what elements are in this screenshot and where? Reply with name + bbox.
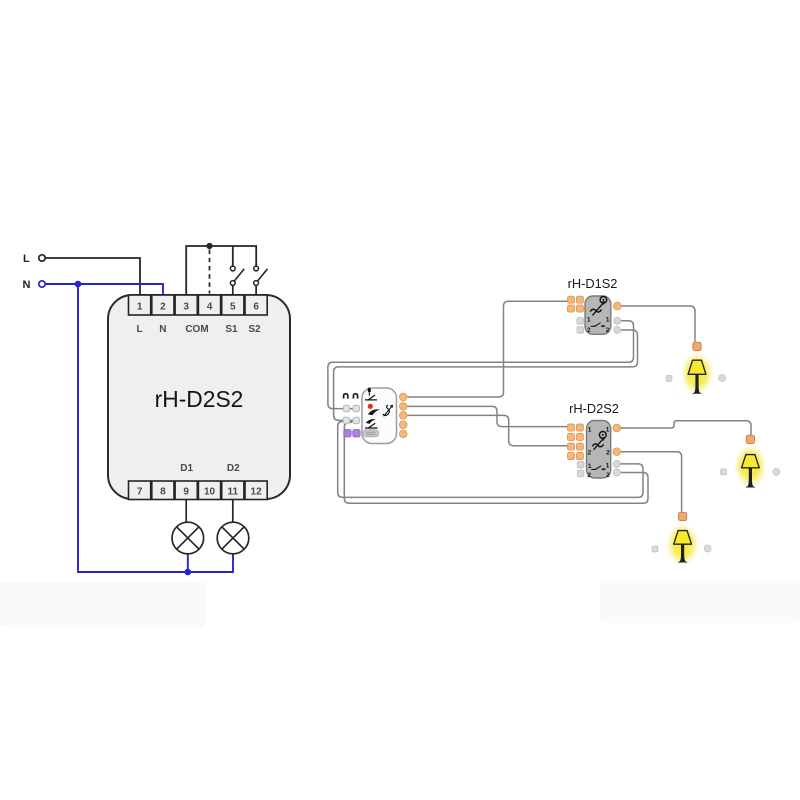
rH-D1S2 S channel labels 2 (587, 327, 610, 334)
rH-D1S2 dimmer symbol (590, 301, 605, 315)
node COM junction (206, 243, 212, 249)
wire lamp1 neutral lead (187, 553, 189, 572)
terminal 9 (175, 481, 197, 500)
svg-text:2: 2 (587, 327, 591, 334)
svg-text:1: 1 (588, 426, 592, 433)
controller icon swoosh (368, 409, 380, 415)
svg-text:1: 1 (606, 463, 610, 470)
node N junction (75, 281, 82, 288)
svg-text:10: 10 (204, 486, 216, 497)
wire dashed COM link to terminal 4 (209, 250, 211, 294)
svg-text:rH-D1S2: rH-D1S2 (568, 276, 618, 291)
lamp L1 glow (679, 350, 715, 397)
controller icon switch A (365, 395, 377, 400)
svg-text:D2: D2 (227, 463, 240, 474)
terminal 1 (129, 295, 151, 315)
svg-text:3: 3 (183, 301, 189, 312)
lamp E2 (217, 522, 249, 554)
controller input pair A (343, 405, 359, 411)
lamp L1 icon (688, 360, 706, 394)
svg-text:N: N (23, 279, 31, 291)
node lamp1 neutral junction (185, 569, 192, 576)
rH-D1S2 aux ports (gray squares) (577, 318, 584, 334)
svg-text:2: 2 (587, 472, 591, 479)
terminal 3 (175, 295, 197, 315)
controller output port 3 (399, 412, 407, 420)
lamp L2 side square (721, 469, 727, 475)
rH-D1S2 switch symbol (591, 323, 605, 328)
svg-text:5: 5 (230, 301, 236, 312)
wire N return bus (78, 284, 233, 572)
wire controller out1 to rH-D1S2 input (407, 301, 569, 397)
terminal 8 (152, 481, 174, 500)
lamp L2 side circle (773, 469, 780, 476)
svg-text:S2: S2 (248, 324, 261, 335)
svg-text:1: 1 (588, 463, 592, 470)
rH-D2S2 S channel labels 1 (588, 463, 610, 470)
rH-D2S2 channel labels 1 (588, 426, 610, 433)
module rH-D2S2 body (108, 295, 290, 499)
svg-text:1: 1 (606, 426, 610, 433)
svg-text:D1: D1 (180, 463, 193, 474)
terminal 7 (129, 481, 151, 500)
wire rH-D1S2 S2 feedback to controller (334, 330, 638, 420)
terminal 12 (245, 481, 267, 500)
terminal L source (39, 255, 45, 261)
lamp L2 glow (732, 443, 768, 490)
svg-text:L: L (23, 253, 30, 265)
lamp E1 (172, 522, 204, 554)
controller output port 5 (399, 430, 407, 438)
wire rH-D2S2 S2 feedback to controller (344, 422, 648, 503)
lamp L2 icon (742, 455, 760, 488)
terminal 6 (245, 295, 267, 315)
controller dimmer symbol (383, 405, 393, 416)
svg-text:1: 1 (137, 301, 143, 312)
terminal N source (39, 281, 45, 287)
svg-text:S1: S1 (225, 324, 238, 335)
rH-D2S2 S ports (gray circles) (613, 460, 620, 476)
svg-text:7: 7 (137, 486, 143, 497)
svg-text:2: 2 (606, 472, 610, 479)
svg-text:N: N (159, 324, 166, 335)
svg-text:L: L (137, 324, 143, 335)
lamp L1 side circle (719, 375, 726, 382)
wire L (45, 258, 140, 295)
lamp L1 side square (666, 376, 672, 382)
rH-D1S2 logo icon (600, 297, 607, 304)
wire terminal 11 to lamp E2 (232, 499, 234, 523)
terminal 4 (198, 295, 220, 315)
controller input pair B (343, 417, 359, 423)
svg-text:1: 1 (606, 317, 610, 324)
wire rH-D1S2 S1 feedback to controller (328, 321, 634, 409)
wire controller out3 to rH-D2S2 input 2 (407, 415, 570, 445)
lamp L1 connector (693, 342, 701, 350)
lamp L3 side square (652, 546, 658, 552)
rH-D2S2 output ports (orange circles) (613, 424, 621, 455)
svg-text:2: 2 (606, 450, 610, 457)
svg-text:9: 9 (183, 486, 189, 497)
svg-text:6: 6 (253, 301, 259, 312)
switch S2 (254, 266, 268, 295)
wire rH-D2S2 output 1 to lamp L2 (620, 421, 752, 435)
wire COM bus (186, 246, 256, 295)
svg-text:2: 2 (160, 301, 166, 312)
wire controller out2 to rH-D2S2 input 1 (407, 406, 570, 426)
controller battery pill (363, 430, 379, 437)
lamp L3 icon (674, 531, 692, 563)
svg-text:11: 11 (228, 486, 239, 497)
rH-D1S2 input ports (orange) (568, 296, 584, 312)
rH-D1S2 output port (orange circle) (614, 302, 622, 310)
module rH-D2S2 (right) body (587, 421, 611, 479)
controller module body (362, 388, 397, 444)
controller antenna bracket icons (344, 394, 358, 399)
wire branch to switch S1 (232, 246, 234, 266)
rH-D2S2 S channel labels 2 (587, 472, 610, 479)
switch S1 (230, 266, 244, 295)
svg-text:4: 4 (207, 301, 213, 312)
wire terminal 9 to lamp E1 (185, 499, 187, 523)
rH-D2S2 switch symbol (591, 466, 605, 471)
rH-D2S2 dimmer symbol (592, 437, 604, 450)
rH-D2S2 channel labels 2 (588, 449, 611, 456)
svg-text:12: 12 (251, 486, 263, 497)
controller icon bird (366, 419, 376, 424)
svg-text:COM: COM (185, 324, 208, 335)
svg-text:rH-D2S2: rH-D2S2 (155, 386, 244, 412)
controller icon mic (368, 388, 371, 396)
terminal 2 (152, 295, 174, 315)
controller red led (368, 404, 373, 409)
wire N to terminal 2 (45, 284, 163, 295)
lamp L3 side circle (704, 545, 711, 552)
lamp L2 connector (746, 435, 754, 443)
lamp L3 connector (679, 512, 687, 520)
controller purple ports (344, 430, 360, 437)
controller icon switch B (365, 423, 378, 428)
terminal 5 (222, 295, 244, 315)
svg-text:1: 1 (587, 317, 591, 324)
rH-D2S2 input ports (orange) (568, 424, 584, 460)
rH-D2S2 aux ports (gray squares) (577, 462, 584, 477)
wire rH-D2S2 S1 feedback to controller (338, 421, 643, 497)
controller output port 2 (399, 403, 407, 411)
controller output port 4 (399, 421, 407, 429)
svg-text:2: 2 (606, 327, 610, 334)
terminal 10 (198, 481, 220, 500)
rH-D1S2 S ports (gray circles) (614, 317, 621, 333)
wire rH-D2S2 output 2 to lamp L3 (620, 452, 682, 512)
svg-text:8: 8 (160, 486, 166, 497)
svg-text:rH-D2S2: rH-D2S2 (569, 401, 619, 416)
terminal 11 (222, 481, 244, 500)
wire rH-D1S2 output to lamp L1 (620, 306, 695, 342)
module rH-D1S2 body (585, 296, 611, 334)
controller output port 1 (399, 393, 407, 401)
svg-text:2: 2 (588, 449, 592, 456)
rH-D1S2 S channel labels 1 (587, 317, 610, 324)
lamp L3 glow (665, 521, 701, 568)
rH-D2S2 logo icon (599, 432, 606, 439)
